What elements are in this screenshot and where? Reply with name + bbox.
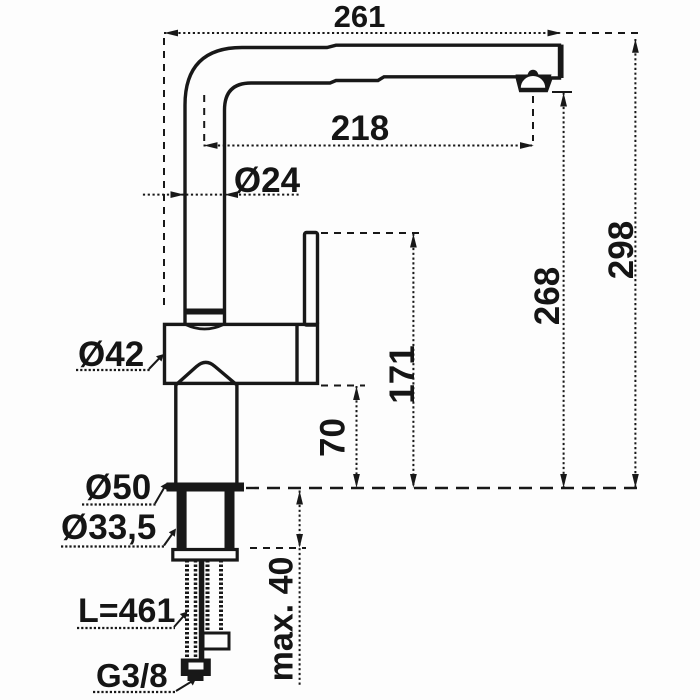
pipe joint line	[184, 309, 225, 315]
dimension 218 line	[204, 145, 535, 147]
pipe/body intersection arc	[186, 325, 224, 330]
counter mounting line	[246, 487, 641, 489]
261 right dashes	[566, 32, 641, 34]
svg-text:max. 40: max. 40	[263, 557, 301, 682]
261 left extension line	[163, 38, 165, 310]
body end-cap line	[295, 324, 298, 383]
left hose fitting	[181, 659, 211, 677]
svg-text:Ø24: Ø24	[234, 161, 301, 200]
svg-text:218: 218	[331, 109, 389, 148]
dimension 261 line	[164, 32, 562, 34]
svg-text:70: 70	[314, 418, 353, 457]
dimension max.40	[299, 491, 301, 686]
dimension Ø24 line	[143, 194, 299, 196]
svg-text:261: 261	[334, 0, 386, 34]
aerator nub	[527, 70, 539, 77]
dark hose bar	[199, 560, 205, 659]
hose B braided lines	[206, 560, 210, 633]
spout end face thick line	[558, 45, 564, 78]
dimension 268	[563, 93, 565, 489]
right hose nut G3/8	[203, 633, 229, 649]
svg-text:298: 298	[602, 221, 641, 279]
svg-text:Ø33,5: Ø33,5	[61, 508, 156, 547]
dimension 171	[412, 234, 414, 489]
hose A braided lines	[185, 560, 189, 658]
base column with conical top	[176, 362, 237, 483]
aerator at spout tip	[516, 75, 552, 92]
svg-text:L=461: L=461	[78, 592, 175, 630]
svg-text:171: 171	[383, 345, 422, 403]
dimension 298	[634, 39, 636, 488]
svg-text:Ø42: Ø42	[78, 335, 144, 374]
aerator centerline	[532, 96, 534, 141]
svg-text:G3/8: G3/8	[96, 657, 168, 694]
aerator white dome	[521, 76, 545, 88]
shank Ø33.5 walls	[177, 492, 187, 550]
svg-text:268: 268	[528, 267, 567, 325]
pipe centerline	[203, 95, 205, 141]
svg-text:Ø50: Ø50	[85, 468, 151, 507]
handle lever	[305, 233, 318, 326]
flange Ø50	[167, 483, 245, 492]
bottom mounting plate	[173, 550, 237, 561]
spout and riser pipe outline	[185, 45, 560, 325]
dimension 70	[356, 386, 358, 488]
body (Ø42 horizontal cylinder)	[165, 324, 318, 383]
